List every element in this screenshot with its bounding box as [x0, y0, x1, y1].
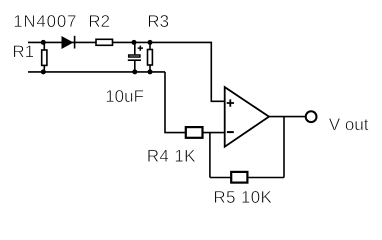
- label R5 10K: [215, 191, 272, 203]
- resistor R4: [186, 127, 203, 138]
- resistor R5: [231, 172, 247, 183]
- label R3: [149, 15, 169, 27]
- wire bottom rail drop to R4: [165, 72, 185, 133]
- junction dot bottom rail C1: [132, 69, 137, 74]
- label 1N4007: [15, 15, 76, 27]
- junction dot top rail C1: [132, 40, 137, 45]
- junction dot top rail R1: [41, 40, 46, 45]
- wire R4 to op-amp minus input: [203, 132, 224, 134]
- capacitor C1 10uF: [128, 42, 143, 72]
- label V out: [329, 118, 369, 130]
- wire op-amp output: [269, 116, 305, 118]
- wire feedback bottom right: [248, 177, 284, 179]
- label R4 1K: [148, 150, 195, 162]
- resistor R3: [148, 42, 153, 72]
- output terminal circle: [306, 111, 317, 122]
- resistor R1: [42, 42, 47, 72]
- wire bottom rail: [28, 71, 165, 73]
- resistor R2: [96, 39, 113, 45]
- diode D1 1N4007: [62, 36, 75, 49]
- wire feedback right leg: [283, 117, 285, 178]
- label 10uF: [107, 90, 144, 102]
- junction dot bottom rail R3: [148, 69, 153, 74]
- op-amp U1: [225, 87, 269, 147]
- label R2: [90, 15, 110, 27]
- label R1: [14, 46, 34, 58]
- junction dot bottom rail R1: [41, 69, 46, 74]
- wire feedback left leg: [209, 133, 211, 178]
- wire top rail to op-amp plus input: [28, 42, 225, 101]
- wire feedback bottom left: [210, 177, 231, 179]
- junction dot top rail R3: [148, 40, 153, 45]
